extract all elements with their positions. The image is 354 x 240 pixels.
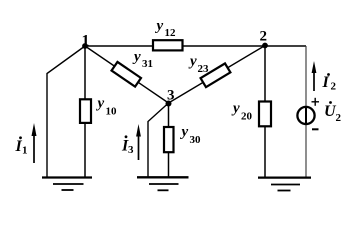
ground right [258, 178, 311, 191]
resistor y23 [201, 63, 231, 87]
voltage source U2 [297, 107, 314, 125]
label y10 [96, 96, 118, 118]
wire node1 down through y10 [84, 46, 86, 177]
wire right source branch vertical [305, 46, 307, 177]
wire node3 to I3 branch [148, 103, 169, 177]
resistor y20 [259, 102, 271, 127]
svg-text:2: 2 [260, 29, 268, 45]
resistor y12 [153, 40, 183, 50]
label U2 [324, 101, 342, 124]
arrow I1 [32, 123, 37, 163]
arrow I3 [136, 124, 141, 160]
label y23 [188, 54, 209, 76]
label y31 [132, 49, 153, 70]
svg-text:2: 2 [331, 81, 337, 93]
wire top bus node1 to node2 to corner [85, 45, 306, 47]
wire node3 to node2 diagonal [169, 46, 266, 104]
plus sign of U2 [312, 98, 320, 106]
node 2 [262, 43, 268, 49]
node 3 [166, 101, 172, 107]
resistor y31 [112, 62, 141, 87]
svg-text:2: 2 [336, 112, 342, 124]
svg-text:23: 23 [198, 63, 210, 75]
svg-text:y: y [231, 101, 240, 117]
svg-text:20: 20 [241, 111, 253, 123]
label y12 [155, 18, 177, 39]
node 1 [82, 43, 88, 49]
label y30 [180, 124, 202, 146]
label I3 [121, 135, 134, 156]
arrow I2 [312, 61, 317, 91]
wire left diagonal from node1 [47, 46, 85, 177]
ground left [42, 178, 92, 191]
wire node1 to node3 diagonal [85, 46, 169, 103]
resistor y30 [164, 127, 174, 152]
svg-text:31: 31 [142, 58, 153, 70]
svg-text:12: 12 [165, 27, 177, 39]
svg-text:3: 3 [167, 88, 175, 104]
svg-text:y: y [132, 49, 141, 65]
svg-text:y: y [180, 124, 189, 140]
svg-text:I: I [322, 74, 330, 91]
svg-text:1: 1 [22, 145, 28, 157]
wire node3 down through y30 [168, 103, 170, 177]
svg-text:y: y [96, 96, 105, 112]
minus sign of U2 [312, 128, 319, 130]
resistor y10 [80, 99, 91, 123]
svg-text:30: 30 [190, 134, 202, 146]
label y20 [231, 101, 253, 123]
svg-text:1: 1 [82, 33, 90, 50]
svg-text:3: 3 [128, 144, 134, 156]
ground middle [137, 177, 189, 190]
wire node2 down through y20 [264, 46, 266, 177]
svg-text:y: y [155, 18, 164, 34]
label I1 [15, 136, 28, 156]
svg-text:10: 10 [106, 106, 118, 118]
label I2 [322, 73, 337, 92]
svg-text:y: y [188, 54, 197, 70]
